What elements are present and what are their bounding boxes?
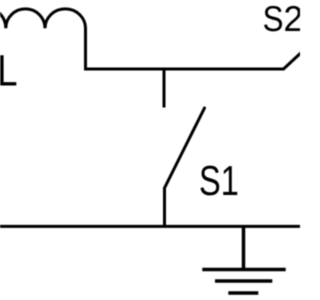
inductor L: [0, 8, 86, 69]
ground bar 1: [202, 268, 285, 272]
wire: bottom rail: [0, 225, 300, 228]
wire: top rail from inductor to S2: [84, 68, 284, 71]
label L: [0, 55, 16, 85]
ground: [202, 226, 285, 293]
switch S1 blade: [165, 108, 205, 188]
wire: S1 top terminal stub from top rail: [163, 69, 166, 108]
ground bar 3: [228, 291, 258, 295]
ground bar 2: [215, 279, 272, 283]
switch S2 blade: [284, 50, 305, 70]
wire: S1 bottom terminal to bottom rail: [163, 188, 166, 226]
label S2: [264, 6, 301, 31]
label S1: [200, 166, 237, 196]
ground stem wire: [242, 226, 246, 269]
